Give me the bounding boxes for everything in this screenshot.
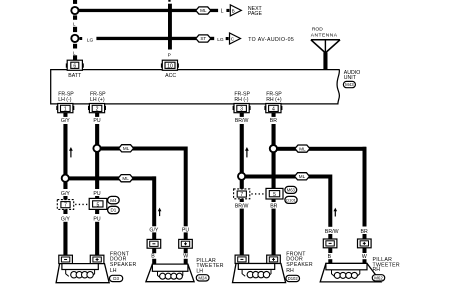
- svg-text:PU: PU: [93, 118, 100, 124]
- stub above tweeter LH + pin: [184, 232, 188, 239]
- node junction on L wire (lower): [71, 35, 78, 42]
- wire branch BR/W to tweeter - (horizontal): [243, 175, 332, 179]
- antenna mast wire: [323, 52, 327, 69]
- pin 3: [233, 104, 251, 113]
- wire L (shielded dashed lead to BATT): [73, 0, 77, 60]
- dotted link pin7-pin5 (LH): [75, 203, 88, 205]
- node junction on L wire (top): [71, 7, 78, 14]
- connector code M24: [196, 275, 209, 281]
- stub above tweeter RH - pin: [328, 234, 332, 239]
- arrow on BR/W wire: [245, 147, 249, 157]
- svg-text:ST: ST: [200, 36, 206, 41]
- wire ML horizontal (top run): [78, 9, 197, 12]
- node junction on BR wire: [270, 145, 277, 152]
- wire stub below pin 7 RH: [240, 199, 244, 202]
- splice code ML oval (top): [196, 7, 211, 14]
- svg-text:10: 10: [167, 64, 173, 70]
- svg-text:BR/W: BR/W: [235, 118, 249, 124]
- svg-text:4: 4: [272, 107, 275, 113]
- svg-text:6: 6: [73, 64, 76, 70]
- svg-text:RH: RH: [373, 267, 381, 273]
- wire stub below pin 7: [63, 209, 67, 214]
- wire BR to speaker RH: [272, 209, 276, 256]
- svg-text:B: B: [328, 254, 332, 260]
- pin 6 BATT: [66, 63, 67, 67]
- svg-text:PAGE: PAGE: [248, 11, 263, 17]
- front door speaker LH body: [56, 264, 109, 283]
- wire G/Y vertical: [63, 124, 67, 175]
- stub below pin 3: [240, 113, 244, 117]
- pin 1: [56, 104, 74, 113]
- svg-text:M63: M63: [287, 188, 296, 193]
- page connector triangle B: [230, 5, 241, 16]
- connector pin 5 (RH): [266, 188, 283, 199]
- svg-text:M4: M4: [110, 198, 117, 203]
- arrow on tweeter - branch (LH): [158, 208, 162, 217]
- audio unit U box: [51, 70, 340, 104]
- svg-text:D101: D101: [286, 198, 296, 203]
- wire PU vertical: [95, 124, 99, 145]
- wire stub into tweeter RH body (-): [328, 259, 332, 264]
- connector code M63: [285, 186, 297, 193]
- wire branch G/Y to tweeter - (vertical): [152, 176, 156, 226]
- node junction on BR/W wire: [238, 173, 245, 180]
- wire ST horizontal (second run): [80, 37, 83, 40]
- wire stub into tweeter LH body (+): [184, 259, 188, 265]
- connector code M43: [343, 81, 355, 87]
- svg-text:ML: ML: [299, 146, 306, 151]
- splice code ML oval (PU branch): [119, 145, 134, 152]
- front door speaker RH body: [233, 264, 286, 283]
- connector code M4: [108, 196, 120, 203]
- junction square before page connector C: [226, 37, 229, 40]
- svg-text:5: 5: [273, 192, 276, 198]
- front door speaker RH terminal (+): [267, 255, 281, 263]
- svg-text:RH (+): RH (+): [266, 97, 282, 103]
- connector pin 7 (LH, dashed shell): [57, 200, 73, 210]
- svg-text:L: L: [73, 21, 76, 26]
- svg-text:P: P: [168, 52, 171, 58]
- svg-text:L: L: [73, 50, 76, 55]
- svg-text:L: L: [221, 9, 224, 15]
- node junction on PU wire: [93, 145, 100, 152]
- svg-text:1: 1: [64, 107, 67, 113]
- node junction on G/Y wire: [62, 175, 69, 182]
- wire segment after ML oval: [210, 9, 218, 12]
- splice code ML oval (G/Y branch): [118, 175, 133, 182]
- svg-text:ANTENNA: ANTENNA: [311, 33, 338, 39]
- svg-text:7: 7: [64, 203, 67, 209]
- wire stub above pin 7: [63, 196, 67, 200]
- svg-text:ML: ML: [122, 176, 129, 181]
- svg-text:ACC: ACC: [165, 73, 176, 79]
- wire P vertical (ACC feed): [168, 0, 170, 2]
- wire stub into tweeter RH body (+): [363, 259, 367, 264]
- stub above tweeter RH + pin: [363, 234, 367, 239]
- connector pin 5 (LH): [89, 198, 107, 209]
- svg-text:LH: LH: [110, 268, 117, 274]
- svg-text:5: 5: [97, 202, 100, 208]
- svg-text:D1: D1: [111, 208, 117, 213]
- svg-text:7: 7: [240, 192, 243, 198]
- wire branch BR to tweeter + (horizontal): [274, 147, 366, 151]
- wire stub below pin 5 RH: [272, 199, 276, 202]
- svg-text:G/Y: G/Y: [61, 216, 70, 222]
- svg-text:M24: M24: [198, 275, 207, 280]
- svg-text:ML: ML: [299, 174, 306, 179]
- wire branch BR/W to tweeter - (vertical): [328, 175, 332, 227]
- wire BR continues below junction: [272, 152, 276, 189]
- stub above tweeter LH - pin: [152, 232, 156, 239]
- wire segment after ST oval: [210, 37, 214, 40]
- pin 2: [88, 104, 106, 113]
- svg-text:ML: ML: [200, 8, 207, 13]
- stub below tweeter LH + pin: [184, 248, 188, 253]
- svg-text:BATT: BATT: [68, 73, 82, 79]
- wire branch PU to tweeter + (vertical): [184, 147, 188, 227]
- front door speaker RH terminal (-): [235, 255, 249, 263]
- svg-text:D102: D102: [288, 276, 299, 281]
- connector code D3: [110, 275, 123, 281]
- wire G/Y to speaker: [63, 222, 67, 256]
- splice code ML oval (BR branch): [295, 145, 310, 152]
- svg-text:UNIT: UNIT: [344, 75, 357, 81]
- wire branch G/Y to tweeter - (horizontal): [66, 176, 156, 180]
- svg-text:LG: LG: [217, 37, 224, 43]
- wire BR/W to speaker RH: [240, 209, 244, 256]
- junction square before page connector B: [226, 9, 229, 12]
- pin 4: [264, 104, 282, 113]
- pillar tweeter LH body: [146, 264, 194, 282]
- connector pin 7 (RH, dashed shell): [234, 189, 250, 199]
- front door speaker LH terminal (+): [90, 255, 104, 263]
- connector code M62: [372, 275, 384, 281]
- svg-text:RH (-): RH (-): [234, 97, 248, 103]
- pin 10 ACC: [161, 63, 162, 67]
- wire BR/W stub below junction: [240, 180, 244, 189]
- wire BR/W vertical: [240, 124, 244, 173]
- wire PU continues below junction: [95, 152, 99, 189]
- tweeter LH + terminal: [179, 239, 193, 248]
- splice code ML oval (BR/W branch): [295, 173, 310, 180]
- svg-text:ROD: ROD: [312, 27, 323, 33]
- svg-text:ML: ML: [123, 146, 130, 151]
- stub below tweeter RH - pin: [328, 248, 332, 253]
- wire stub into tweeter LH body (-): [152, 259, 156, 265]
- svg-text:W: W: [362, 254, 367, 260]
- page connector triangle C: [230, 33, 241, 44]
- connector code D1: [108, 206, 120, 213]
- stub below tweeter RH + pin: [363, 248, 367, 253]
- arrow on tweeter - branch (RH): [334, 208, 338, 217]
- stub below pin 2: [95, 113, 99, 117]
- tweeter RH + terminal: [358, 239, 372, 248]
- connector code D101: [285, 196, 297, 203]
- stub below pin 1: [63, 113, 67, 117]
- svg-text:D3: D3: [113, 276, 119, 281]
- svg-text:W: W: [183, 254, 188, 260]
- svg-text:LG: LG: [87, 37, 94, 43]
- svg-text:TO AV-AUDIO-05: TO AV-AUDIO-05: [248, 37, 294, 43]
- connector code D102: [286, 275, 300, 281]
- wire branch BR to tweeter + (vertical): [363, 147, 367, 227]
- svg-text:B: B: [232, 8, 235, 13]
- tweeter RH - terminal: [323, 239, 337, 248]
- pillar tweeter RH body: [320, 263, 381, 282]
- rod antenna symbol: [311, 40, 340, 53]
- svg-text:M62: M62: [374, 275, 383, 280]
- wire branch PU to tweeter + (horizontal): [98, 147, 187, 151]
- svg-text:LH: LH: [196, 268, 203, 274]
- wire PU to speaker: [95, 222, 99, 256]
- svg-text:B: B: [151, 254, 155, 260]
- svg-text:RH: RH: [286, 268, 294, 274]
- stub below tweeter LH - pin: [152, 248, 156, 253]
- arrow on G/Y wire: [69, 147, 73, 157]
- stub below pin 4: [272, 113, 276, 117]
- wire stub above pin 5: [95, 196, 99, 198]
- wire G/Y stub below junction: [63, 182, 67, 189]
- svg-text:G/Y: G/Y: [61, 118, 70, 124]
- svg-text:3: 3: [240, 107, 243, 113]
- front door speaker LH terminal (-): [59, 255, 73, 263]
- svg-text:BR: BR: [270, 118, 277, 124]
- dotted link pin7-pin5 (RH): [251, 193, 265, 195]
- wire stub below pin 5: [95, 209, 99, 214]
- svg-text:2: 2: [96, 107, 99, 113]
- tweeter LH - terminal: [147, 239, 161, 248]
- svg-text:PU: PU: [93, 216, 100, 222]
- svg-text:M43: M43: [345, 82, 354, 87]
- wire BR vertical: [272, 124, 276, 145]
- svg-text:LH (+): LH (+): [90, 97, 105, 103]
- svg-text:LH (-): LH (-): [58, 97, 72, 103]
- splice code ST oval: [196, 35, 211, 42]
